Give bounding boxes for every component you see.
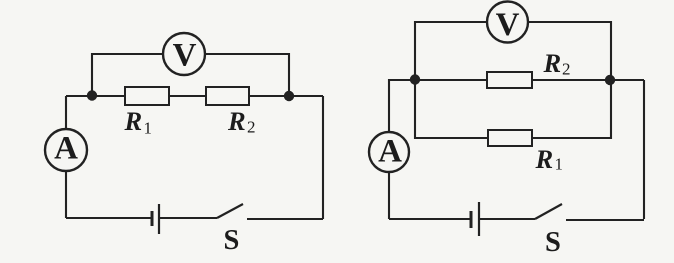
svg-text:A: A: [378, 134, 402, 170]
node left (right circuit): [410, 74, 420, 84]
svg-text:V: V: [173, 38, 197, 74]
wire: right vertical: [322, 96, 324, 218]
wire: voltmeter branch left stub: [92, 54, 163, 96]
wire: lower branch (R1): [415, 80, 611, 138]
voltmeter V1: [163, 33, 205, 75]
resistor R1 (left circuit): [125, 87, 169, 105]
resistor R2 (right circuit): [487, 72, 532, 88]
wire: battery to switch (right circuit): [479, 218, 535, 220]
node left (junction to voltmeter branch): [87, 90, 97, 100]
svg-text:2: 2: [562, 60, 571, 79]
label R1 (right circuit): [535, 144, 564, 174]
ammeter A2: [369, 132, 409, 172]
wire: ammeter to bottom: [388, 172, 390, 219]
label R2: [227, 106, 256, 137]
wire: horizontal to ammeter branch: [389, 80, 415, 131]
svg-text:1: 1: [144, 119, 153, 138]
battery B1 short plate: [151, 211, 154, 226]
wire: top voltmeter row right: [529, 22, 611, 80]
battery B2 long plate: [478, 202, 480, 236]
label R1: [124, 106, 153, 138]
svg-text:V: V: [496, 7, 520, 43]
label R2 (right circuit): [543, 48, 571, 79]
svg-text:1: 1: [555, 155, 564, 174]
wire: bottom left segment: [66, 217, 151, 219]
wire: voltmeter branch right stub: [205, 54, 289, 96]
svg-text:R: R: [124, 106, 143, 136]
wire: battery to switch: [159, 217, 217, 219]
svg-text:2: 2: [247, 118, 256, 137]
switch S2 blade: [535, 204, 562, 219]
resistor R2 (left circuit): [206, 87, 249, 105]
wire: left vertical bottom (ammeter to bottom wire): [65, 171, 67, 218]
svg-text:R: R: [227, 106, 246, 136]
wire: bottom left segment (right circuit): [389, 218, 470, 220]
wire: outer right vertical: [643, 80, 645, 219]
wire: top voltmeter row left: [415, 22, 486, 80]
battery B1 long plate: [158, 204, 160, 234]
svg-text:S: S: [545, 227, 561, 258]
wire: switch right segment: [247, 218, 323, 219]
wire: main horizontal row: [66, 95, 323, 97]
switch S1 blade: [217, 204, 243, 218]
voltmeter V2: [487, 2, 528, 44]
svg-text:R: R: [535, 144, 554, 174]
svg-text:A: A: [54, 131, 78, 167]
node right (junction to voltmeter branch): [284, 91, 294, 101]
node right (right circuit): [605, 75, 615, 85]
resistor R1 (right circuit): [488, 130, 532, 146]
svg-text:R: R: [543, 48, 562, 78]
battery B2 short plate: [470, 211, 473, 228]
wire: R2 branch: [415, 79, 644, 81]
svg-text:S: S: [224, 225, 240, 256]
ammeter A1: [45, 129, 87, 171]
wire: left vertical top (node row to ammeter): [65, 96, 67, 129]
wire: switch right segment (right circuit): [566, 219, 644, 221]
